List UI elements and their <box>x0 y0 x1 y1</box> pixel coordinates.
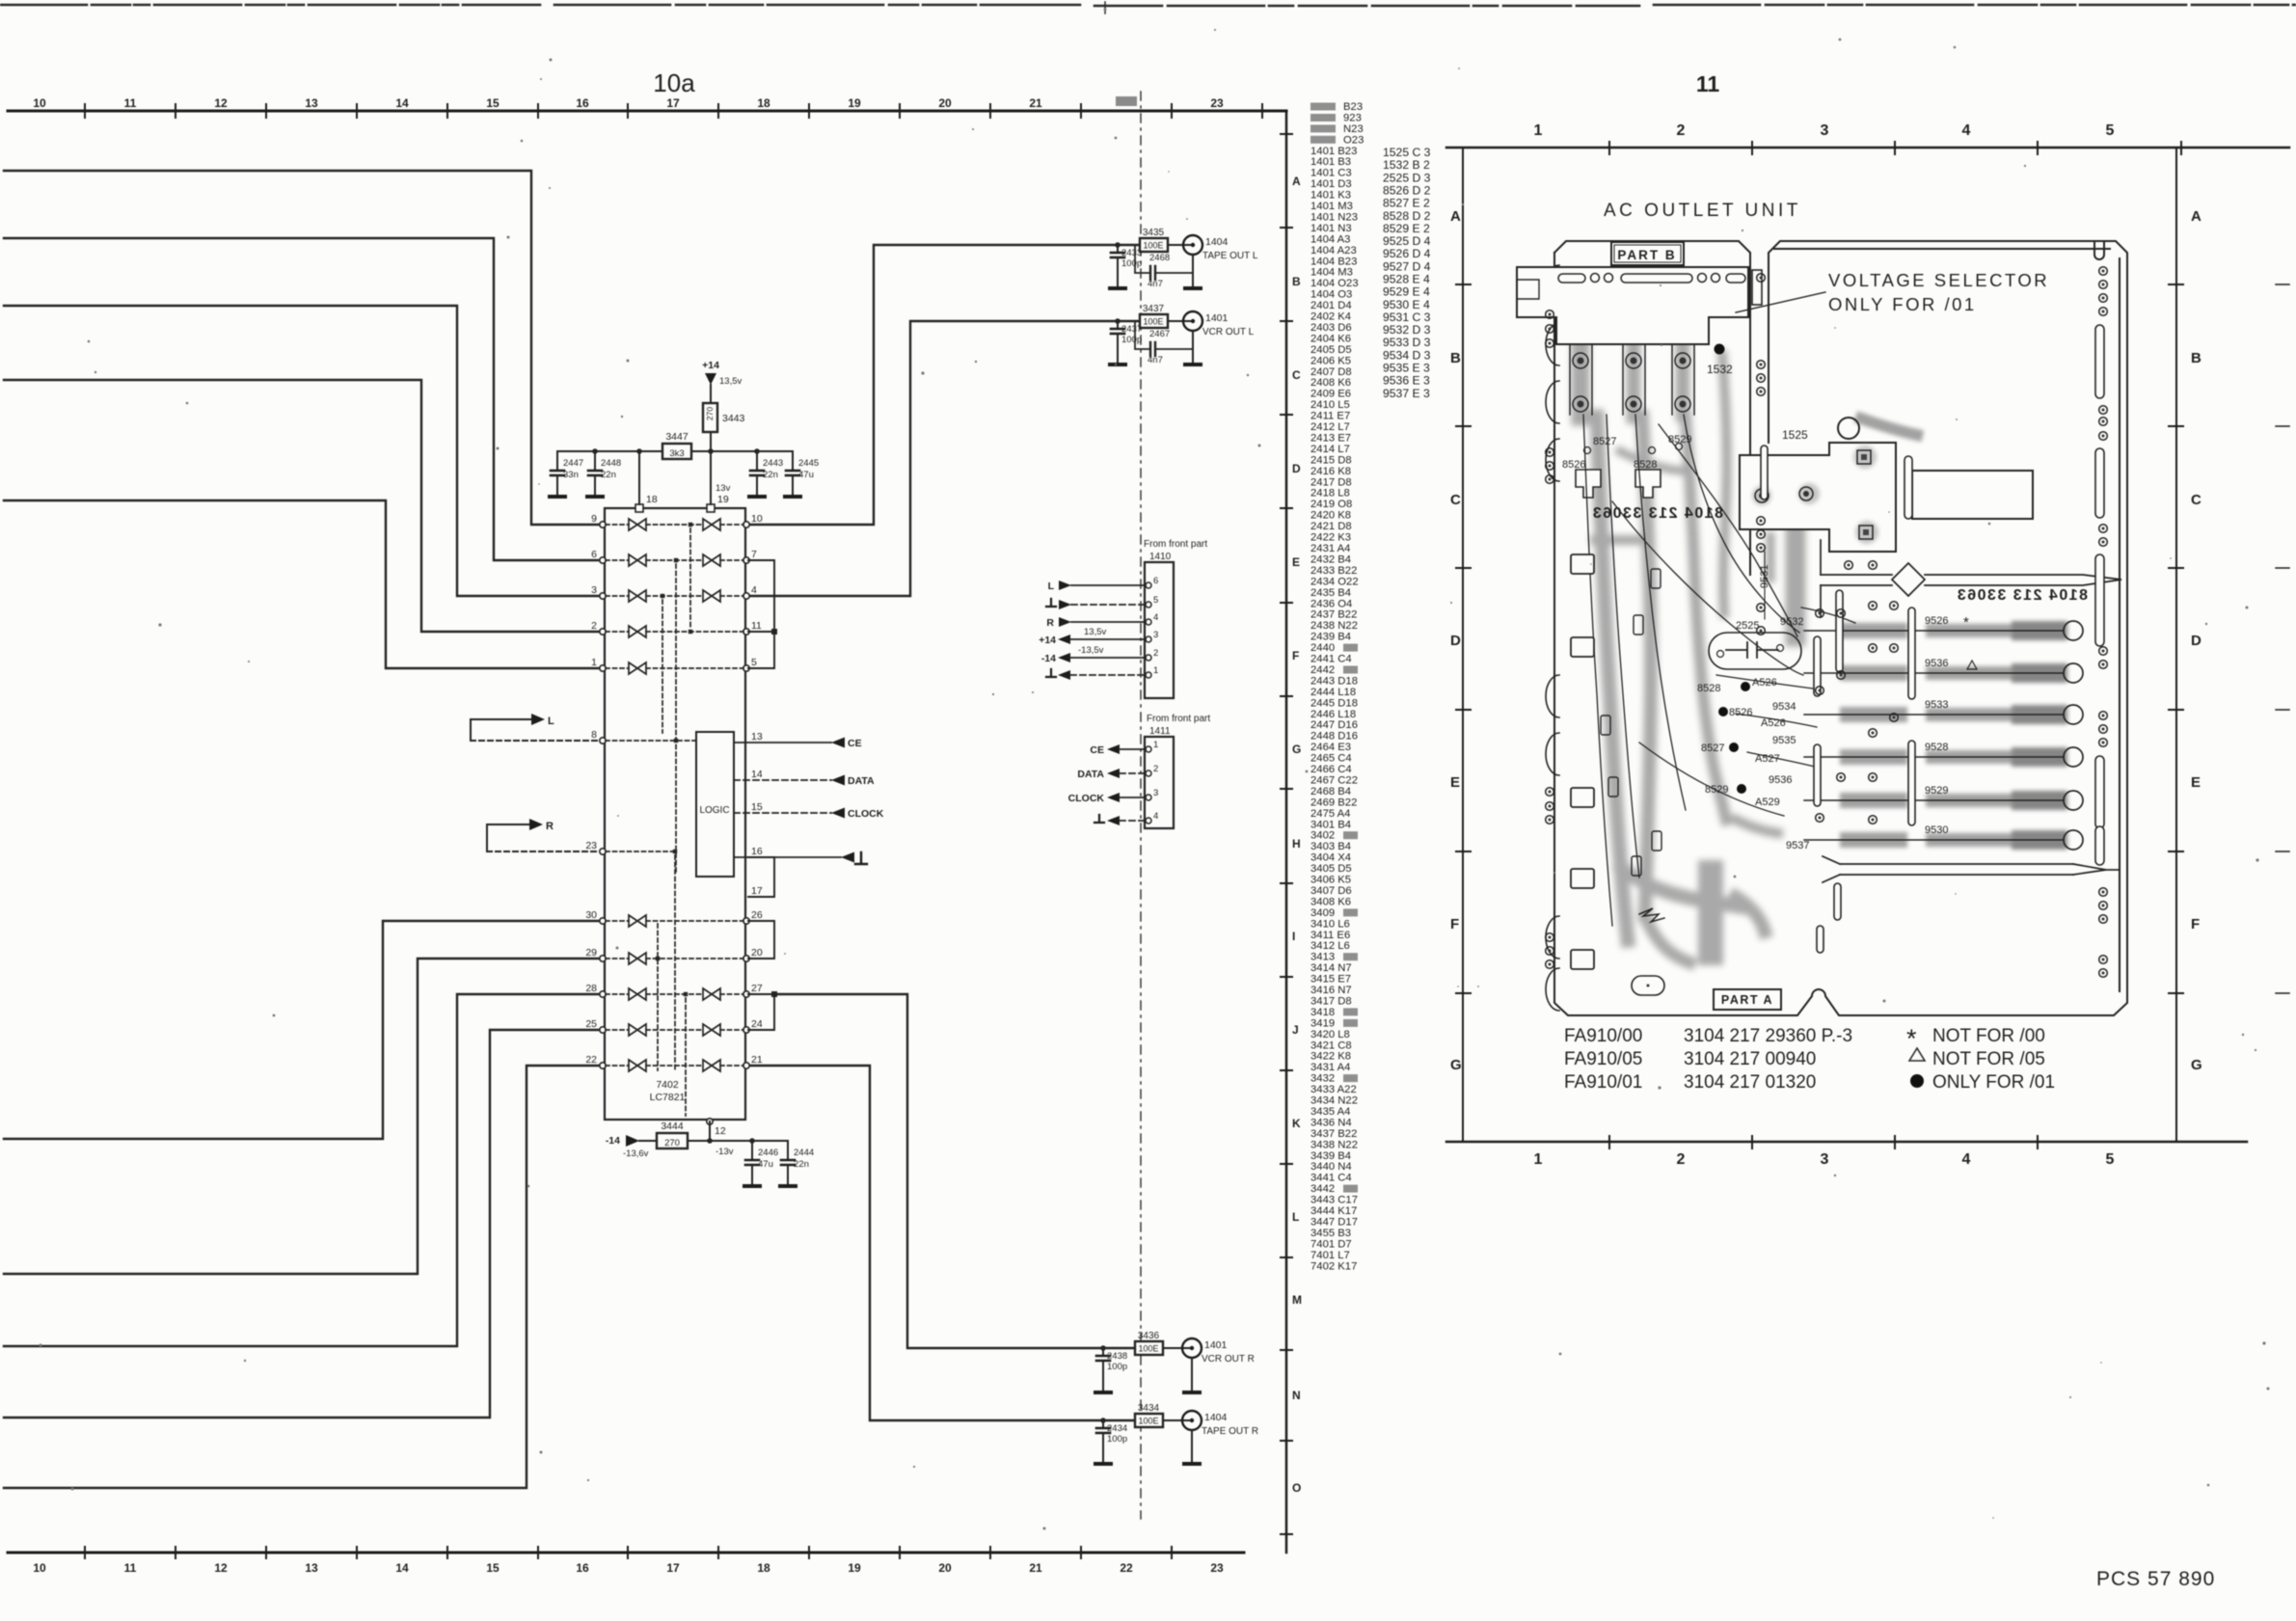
zigzag mark <box>1639 908 1664 922</box>
svg-text:1410: 1410 <box>1149 552 1172 562</box>
svg-text:13,5v: 13,5v <box>1084 627 1106 637</box>
svg-text:16: 16 <box>576 1561 589 1575</box>
svg-text:2: 2 <box>591 620 597 632</box>
svg-text:1404: 1404 <box>1205 236 1229 248</box>
svg-text:2419 O8: 2419 O8 <box>1310 499 1352 510</box>
wire pin10 to TAPE OUT L <box>748 245 1140 525</box>
wire bus L in 4 <box>4 380 599 632</box>
svg-text:B: B <box>1292 275 1301 288</box>
svg-text:21: 21 <box>1029 1561 1042 1575</box>
svg-text:ONLY FOR /01: ONLY FOR /01 <box>1828 294 1977 314</box>
svg-text:3415 E7: 3415 E7 <box>1310 974 1351 986</box>
svg-text:DATA: DATA <box>1077 769 1104 780</box>
svg-text:N23: N23 <box>1343 123 1364 135</box>
svg-text:VOLTAGE SELECTOR: VOLTAGE SELECTOR <box>1828 270 2049 290</box>
svg-text:13: 13 <box>751 731 763 743</box>
capacitor 2445 47u <box>792 451 794 471</box>
svg-text:G: G <box>1292 743 1301 756</box>
svg-text:24: 24 <box>751 1018 763 1030</box>
resistor 3437 100E <box>1140 314 1168 328</box>
svg-text:2440: 2440 <box>1310 642 1335 654</box>
capacitor 2446 47u <box>751 1141 753 1160</box>
svg-text:1532: 1532 <box>1707 363 1733 376</box>
svg-text:14: 14 <box>395 96 409 110</box>
top ruler <box>8 110 1286 113</box>
svg-text:2407 D8: 2407 D8 <box>1310 366 1352 378</box>
svg-text:9: 9 <box>591 513 597 525</box>
svg-text:3443: 3443 <box>722 413 745 424</box>
capacitor 2525 <box>1709 633 1801 669</box>
svg-text:270: 270 <box>705 407 715 420</box>
variant legend <box>1932 1026 2055 1093</box>
capacitor 2433 100p <box>1111 253 1124 257</box>
junction node <box>1115 242 1121 248</box>
svg-text:1404 O3: 1404 O3 <box>1310 289 1352 301</box>
RCA jack 1401 VCR OUT R <box>1182 1338 1202 1358</box>
svg-text:9529 E 4: 9529 E 4 <box>1383 285 1430 299</box>
ground <box>1184 1391 1200 1393</box>
svg-text:2445: 2445 <box>798 458 819 469</box>
svg-text:8104 213 33063: 8104 213 33063 <box>1956 587 2088 604</box>
svg-text:2414 L7: 2414 L7 <box>1310 444 1350 455</box>
wire bus L in 2 <box>4 238 599 560</box>
svg-text:100E: 100E <box>1138 1417 1158 1426</box>
svg-text:3442: 3442 <box>1310 1183 1335 1195</box>
svg-text:PCS 57 890: PCS 57 890 <box>2096 1568 2215 1590</box>
svg-text:11: 11 <box>124 96 137 110</box>
svg-text:18: 18 <box>757 96 770 110</box>
svg-text:9525 D 4: 9525 D 4 <box>1383 234 1431 248</box>
svg-text:15: 15 <box>486 96 500 110</box>
svg-text:2408 K6: 2408 K6 <box>1310 377 1351 389</box>
svg-text:5: 5 <box>2106 1151 2115 1168</box>
ground <box>749 496 765 498</box>
junction node <box>1115 318 1121 324</box>
svg-text:13,5v: 13,5v <box>719 376 742 387</box>
svg-text:B: B <box>2191 350 2201 366</box>
svg-text:2448: 2448 <box>601 458 621 469</box>
svg-text:21: 21 <box>1029 96 1042 110</box>
svg-text:8529: 8529 <box>1705 784 1728 796</box>
svg-text:3418: 3418 <box>1310 1007 1335 1018</box>
svg-text:-13v: -13v <box>716 1147 734 1157</box>
svg-text:H: H <box>1292 837 1301 851</box>
svg-text:3455 B3: 3455 B3 <box>1310 1228 1351 1239</box>
junction node <box>1100 1418 1106 1423</box>
svg-text:3438 N22: 3438 N22 <box>1310 1139 1358 1150</box>
svg-text:E: E <box>1450 774 1460 791</box>
svg-text:2420 K8: 2420 K8 <box>1310 510 1351 522</box>
svg-text:8529 E 2: 8529 E 2 <box>1383 222 1430 235</box>
svg-text:16: 16 <box>576 96 589 110</box>
svg-text:3: 3 <box>1153 788 1158 798</box>
svg-text:3436 N4: 3436 N4 <box>1310 1117 1352 1128</box>
svg-text:From front part: From front part <box>1144 539 1207 550</box>
capacitor 2468 4n7 <box>1135 245 1150 273</box>
svg-text:-14: -14 <box>1041 653 1056 664</box>
svg-text:9537: 9537 <box>1786 840 1809 851</box>
svg-text:9533: 9533 <box>1925 699 1948 711</box>
svg-text:LOGIC: LOGIC <box>699 805 729 816</box>
svg-text:1401: 1401 <box>1205 312 1229 324</box>
svg-text:18: 18 <box>757 1561 770 1575</box>
svg-text:7402 K17: 7402 K17 <box>1310 1260 1357 1272</box>
svg-text:2418 L8: 2418 L8 <box>1310 488 1350 500</box>
svg-text:2443: 2443 <box>763 458 783 469</box>
svg-text:17: 17 <box>666 96 680 110</box>
wire pin21 to TAPE OUT R <box>748 1066 1135 1420</box>
svg-text:27: 27 <box>751 983 763 994</box>
svg-text:2411 E7: 2411 E7 <box>1310 411 1350 422</box>
svg-text:2: 2 <box>1153 764 1158 774</box>
svg-text:10a: 10a <box>653 68 695 97</box>
only for /01 dot <box>1715 344 1725 355</box>
svg-text:2437 B22: 2437 B22 <box>1310 609 1357 621</box>
svg-text:100E: 100E <box>1138 1344 1158 1354</box>
svg-text:2: 2 <box>1153 648 1158 659</box>
svg-text:1404: 1404 <box>1204 1412 1228 1423</box>
svg-text:1525 C 3: 1525 C 3 <box>1383 146 1431 159</box>
svg-text:3104 217 29360 P.-3: 3104 217 29360 P.-3 <box>1684 1026 1852 1046</box>
svg-text:22n: 22n <box>601 470 616 480</box>
svg-text:28: 28 <box>585 983 597 994</box>
svg-text:2444 L18: 2444 L18 <box>1310 687 1356 698</box>
right frame of left page <box>1285 111 1288 1553</box>
svg-text:1401 B3: 1401 B3 <box>1310 156 1351 168</box>
svg-text:NOT FOR /05: NOT FOR /05 <box>1932 1049 2045 1069</box>
svg-text:3104 217 01320: 3104 217 01320 <box>1684 1072 1816 1093</box>
svg-text:5: 5 <box>2106 122 2115 139</box>
svg-text:1401 K3: 1401 K3 <box>1310 190 1351 202</box>
capacitor 2448 22n <box>594 451 596 471</box>
svg-text:3402: 3402 <box>1310 830 1335 842</box>
svg-text:23: 23 <box>1210 96 1224 110</box>
svg-text:2439 B4: 2439 B4 <box>1310 632 1351 643</box>
mirrored silkscreen texts <box>1591 505 2088 604</box>
capacitor 2447 33n <box>556 451 558 471</box>
svg-text:1: 1 <box>591 657 597 668</box>
svg-text:2433 B22: 2433 B22 <box>1310 565 1357 577</box>
ground <box>587 496 603 498</box>
svg-text:47u: 47u <box>758 1159 773 1170</box>
svg-text:G: G <box>1450 1057 1462 1073</box>
svg-text:100p: 100p <box>1121 258 1142 269</box>
relay 1525 <box>1740 443 1896 552</box>
svg-text:17: 17 <box>666 1561 680 1575</box>
ground <box>1185 364 1201 365</box>
svg-text:1404 M3: 1404 M3 <box>1310 267 1353 279</box>
fuse body shading <box>1848 419 2058 840</box>
svg-text:3435 A4: 3435 A4 <box>1310 1106 1350 1118</box>
fold dash-dot line <box>1140 92 1142 1519</box>
page top edge scan artifact <box>0 2 2296 14</box>
svg-text:23: 23 <box>585 840 597 851</box>
svg-text:2469 B22: 2469 B22 <box>1310 797 1357 808</box>
svg-text:B23: B23 <box>1343 101 1363 113</box>
svg-text:2410 L5: 2410 L5 <box>1310 399 1350 411</box>
svg-text:21: 21 <box>751 1054 763 1066</box>
svg-text:2525: 2525 <box>1736 620 1759 632</box>
svg-text:2465 C4: 2465 C4 <box>1310 753 1352 765</box>
svg-text:J: J <box>1292 1023 1299 1037</box>
svg-text:I: I <box>1292 930 1295 943</box>
svg-text:9530 E 4: 9530 E 4 <box>1383 298 1430 311</box>
svg-text:1401: 1401 <box>1204 1339 1228 1351</box>
svg-text:19: 19 <box>848 1561 861 1575</box>
svg-text:VCR OUT L: VCR OUT L <box>1202 327 1255 338</box>
svg-text:3420 L8: 3420 L8 <box>1310 1029 1350 1040</box>
svg-text:2467 C22: 2467 C22 <box>1310 775 1358 787</box>
svg-text:3403 B4: 3403 B4 <box>1310 841 1351 852</box>
svg-text:3: 3 <box>1821 1151 1829 1168</box>
svg-text:3404 X4: 3404 X4 <box>1310 852 1351 864</box>
svg-text:9534 D 3: 9534 D 3 <box>1383 348 1431 362</box>
svg-text:8526: 8526 <box>1729 707 1752 718</box>
svg-text:A: A <box>1292 175 1301 188</box>
resistor 3436 100E <box>1135 1341 1163 1355</box>
svg-text:AC OUTLET UNIT: AC OUTLET UNIT <box>1604 201 1801 221</box>
svg-text:6: 6 <box>591 549 597 560</box>
svg-text:2436 O4: 2436 O4 <box>1310 598 1352 609</box>
square holes <box>1571 554 1594 969</box>
ground <box>785 496 800 498</box>
svg-text:3414 N7: 3414 N7 <box>1310 962 1352 974</box>
svg-text:923: 923 <box>1343 113 1362 124</box>
svg-text:L: L <box>1292 1210 1299 1224</box>
svg-text:3406 K5: 3406 K5 <box>1310 875 1351 886</box>
svg-text:B: B <box>1450 350 1461 366</box>
svg-text:3408 K6: 3408 K6 <box>1310 896 1351 907</box>
svg-text:TAPE OUT L: TAPE OUT L <box>1202 251 1258 261</box>
svg-text:3444: 3444 <box>661 1121 684 1132</box>
ground <box>1110 364 1125 365</box>
svg-text:1: 1 <box>1153 740 1158 750</box>
svg-text:2415 D8: 2415 D8 <box>1310 454 1352 466</box>
selector slot row <box>1558 274 1745 284</box>
svg-text:-14: -14 <box>606 1135 620 1147</box>
RCA jack 1404 TAPE OUT L <box>1183 235 1202 255</box>
fuse 9529 <box>1804 799 2064 801</box>
bottom ruler <box>8 1552 1244 1554</box>
svg-text:3434 N22: 3434 N22 <box>1310 1095 1358 1107</box>
upper divider of fuse block <box>1821 540 2121 617</box>
svg-text:9532: 9532 <box>1780 616 1803 628</box>
svg-text:F: F <box>2191 916 2200 932</box>
svg-text:2401 D4: 2401 D4 <box>1310 300 1352 311</box>
svg-text:1411: 1411 <box>1149 726 1171 737</box>
wire pin4 to VCR OUT L <box>748 321 1140 596</box>
svg-text:FA910/01: FA910/01 <box>1564 1072 1642 1093</box>
svg-text:3: 3 <box>1153 630 1158 640</box>
svg-text:17: 17 <box>751 885 763 897</box>
svg-text:2466 C4: 2466 C4 <box>1310 764 1352 775</box>
svg-text:9535: 9535 <box>1772 735 1796 746</box>
svg-text:100p: 100p <box>1107 1362 1127 1372</box>
svg-text:13: 13 <box>305 1561 318 1575</box>
svg-text:15: 15 <box>751 801 763 813</box>
svg-text:9535 E 3: 9535 E 3 <box>1383 362 1430 375</box>
svg-text:3413: 3413 <box>1310 952 1335 963</box>
svg-text:K: K <box>1292 1117 1301 1130</box>
svg-text:3447: 3447 <box>665 431 689 443</box>
svg-text:-13,5v: -13,5v <box>1078 645 1104 656</box>
svg-text:14: 14 <box>751 769 763 780</box>
svg-text:11: 11 <box>124 1561 137 1575</box>
RCA jack 1401 VCR OUT L <box>1183 311 1202 331</box>
svg-text:2525 D 3: 2525 D 3 <box>1383 171 1431 184</box>
svg-text:270: 270 <box>664 1138 680 1148</box>
IC bottom pin 12 <box>707 1119 713 1124</box>
IC 7402 LC7821 body <box>605 508 745 1120</box>
fuse 9533 <box>1804 714 2064 716</box>
svg-text:2444: 2444 <box>794 1148 814 1158</box>
svg-text:*: * <box>1963 614 1969 631</box>
1411 pin4 gnd <box>1094 815 1104 823</box>
svg-text:D: D <box>1292 462 1301 475</box>
svg-text:3431 A4: 3431 A4 <box>1310 1062 1350 1073</box>
svg-text:+14: +14 <box>1039 635 1056 646</box>
junction node <box>1100 1345 1106 1351</box>
svg-text:18: 18 <box>646 494 658 505</box>
svg-text:D: D <box>2191 633 2201 649</box>
svg-text:1404 B23: 1404 B23 <box>1310 256 1357 267</box>
svg-text:9537 E 3: 9537 E 3 <box>1383 387 1430 400</box>
svg-text:A: A <box>2191 208 2201 225</box>
svg-text:TAPE OUT R: TAPE OUT R <box>1202 1426 1258 1437</box>
svg-text:12: 12 <box>214 96 228 110</box>
svg-text:E: E <box>2191 774 2201 791</box>
svg-text:3440 N4: 3440 N4 <box>1310 1161 1352 1173</box>
svg-text:11: 11 <box>751 620 762 632</box>
mounting slots <box>1576 470 1661 498</box>
svg-text:O: O <box>1292 1481 1301 1495</box>
resistor 3444 <box>657 1133 688 1148</box>
svg-text:8528 D 2: 8528 D 2 <box>1383 209 1431 223</box>
svg-text:3416 N7: 3416 N7 <box>1310 985 1352 996</box>
svg-text:15: 15 <box>486 1561 500 1575</box>
svg-text:1401 C3: 1401 C3 <box>1310 168 1352 179</box>
svg-text:9526 D 4: 9526 D 4 <box>1383 247 1431 260</box>
svg-text:22n: 22n <box>794 1159 809 1170</box>
svg-text:3409: 3409 <box>1310 907 1335 919</box>
wire bus L in 3 <box>4 306 599 596</box>
PCB board outline <box>1554 241 2127 1015</box>
svg-text:L: L <box>1048 581 1055 592</box>
svg-text:9526: 9526 <box>1925 615 1948 627</box>
svg-text:12: 12 <box>715 1125 726 1137</box>
svg-text:9529: 9529 <box>1925 785 1948 797</box>
svg-text:100E: 100E <box>1143 241 1163 251</box>
svg-text:2447: 2447 <box>563 458 583 469</box>
svg-text:2405 D5: 2405 D5 <box>1310 344 1352 356</box>
svg-text:2442: 2442 <box>1310 664 1335 676</box>
svg-text:ONLY FOR /01: ONLY FOR /01 <box>1932 1072 2055 1093</box>
svg-text:2406 K5: 2406 K5 <box>1310 355 1351 366</box>
svg-text:3435: 3435 <box>1143 228 1165 238</box>
svg-text:2: 2 <box>1677 122 1686 139</box>
PART A label <box>1714 989 1781 1010</box>
svg-text:100p: 100p <box>1121 335 1142 345</box>
svg-text:47u: 47u <box>798 470 814 480</box>
PART B label <box>1611 242 1684 265</box>
svg-text:3417 D8: 3417 D8 <box>1310 996 1352 1008</box>
svg-text:1: 1 <box>1153 665 1158 676</box>
ground <box>1095 1463 1111 1465</box>
svg-text:8527: 8527 <box>1701 743 1724 754</box>
wire pin27 to VCR OUT R <box>774 994 1135 1348</box>
svg-text:+14: +14 <box>702 360 719 371</box>
IC top pins 18 19 <box>635 504 643 512</box>
svg-text:100E: 100E <box>1143 317 1163 327</box>
svg-text:2447 D16: 2447 D16 <box>1310 719 1358 731</box>
svg-text:1401 N23: 1401 N23 <box>1310 212 1358 224</box>
svg-text:9536 E 3: 9536 E 3 <box>1383 374 1430 388</box>
right page side frames <box>1462 148 1464 1142</box>
svg-text:19: 19 <box>717 494 729 505</box>
capacitor 2467 4n7 <box>1135 321 1150 349</box>
svg-text:7: 7 <box>751 549 757 560</box>
svg-text:O23: O23 <box>1343 134 1364 146</box>
svg-text:2434 O22: 2434 O22 <box>1310 576 1359 587</box>
svg-text:C: C <box>1450 492 1461 508</box>
svg-text:4: 4 <box>751 584 757 596</box>
IC pins <box>600 522 749 1068</box>
wire bus R in 1 <box>4 921 599 1139</box>
1410 pin5 gnd <box>1046 599 1056 607</box>
switch matrix dashed wiring <box>606 525 743 1116</box>
svg-text:R: R <box>1046 617 1054 629</box>
svg-text:100p: 100p <box>1107 1434 1127 1445</box>
svg-text:2416 K8: 2416 K8 <box>1310 466 1351 477</box>
input arrow L <box>471 719 599 741</box>
svg-text:13v: 13v <box>716 483 731 494</box>
svg-text:2432 B4: 2432 B4 <box>1310 554 1351 565</box>
svg-text:3: 3 <box>1821 122 1829 139</box>
resistor 3443 <box>703 403 717 432</box>
svg-text:3433 A22: 3433 A22 <box>1310 1084 1357 1095</box>
svg-text:2445 D18: 2445 D18 <box>1310 697 1358 709</box>
svg-text:8528: 8528 <box>1697 683 1720 694</box>
svg-text:19: 19 <box>848 96 861 110</box>
board type table <box>1564 1026 1852 1093</box>
svg-text:A529: A529 <box>1755 797 1780 808</box>
capacitor 2434 100p <box>1096 1428 1110 1433</box>
svg-text:20: 20 <box>751 947 763 959</box>
wire bus R in 3 <box>4 994 599 1346</box>
pad slots <box>1761 325 2104 953</box>
svg-text:3436: 3436 <box>1138 1331 1160 1341</box>
svg-text:23: 23 <box>1210 1561 1224 1575</box>
svg-text:9528: 9528 <box>1925 742 1948 753</box>
svg-text:F: F <box>1450 916 1459 932</box>
svg-text:26: 26 <box>751 909 763 921</box>
svg-text:NOT FOR /00: NOT FOR /00 <box>1932 1026 2045 1046</box>
svg-text:1: 1 <box>1534 1151 1543 1168</box>
svg-text:2421 D8: 2421 D8 <box>1310 521 1352 532</box>
svg-text:2468 B4: 2468 B4 <box>1310 786 1351 797</box>
capacitor 2443 22n <box>756 451 758 471</box>
svg-text:R: R <box>546 821 554 832</box>
svg-text:10: 10 <box>33 96 46 110</box>
svg-text:C: C <box>2191 492 2201 508</box>
svg-text:2413 E7: 2413 E7 <box>1310 433 1351 445</box>
ground <box>1185 287 1201 289</box>
svg-text:2417 D8: 2417 D8 <box>1310 476 1352 488</box>
svg-text:1401 N3: 1401 N3 <box>1310 223 1352 234</box>
svg-text:4: 4 <box>1153 811 1158 822</box>
svg-text:10: 10 <box>751 513 763 525</box>
svg-text:9532 D 3: 9532 D 3 <box>1383 323 1431 337</box>
